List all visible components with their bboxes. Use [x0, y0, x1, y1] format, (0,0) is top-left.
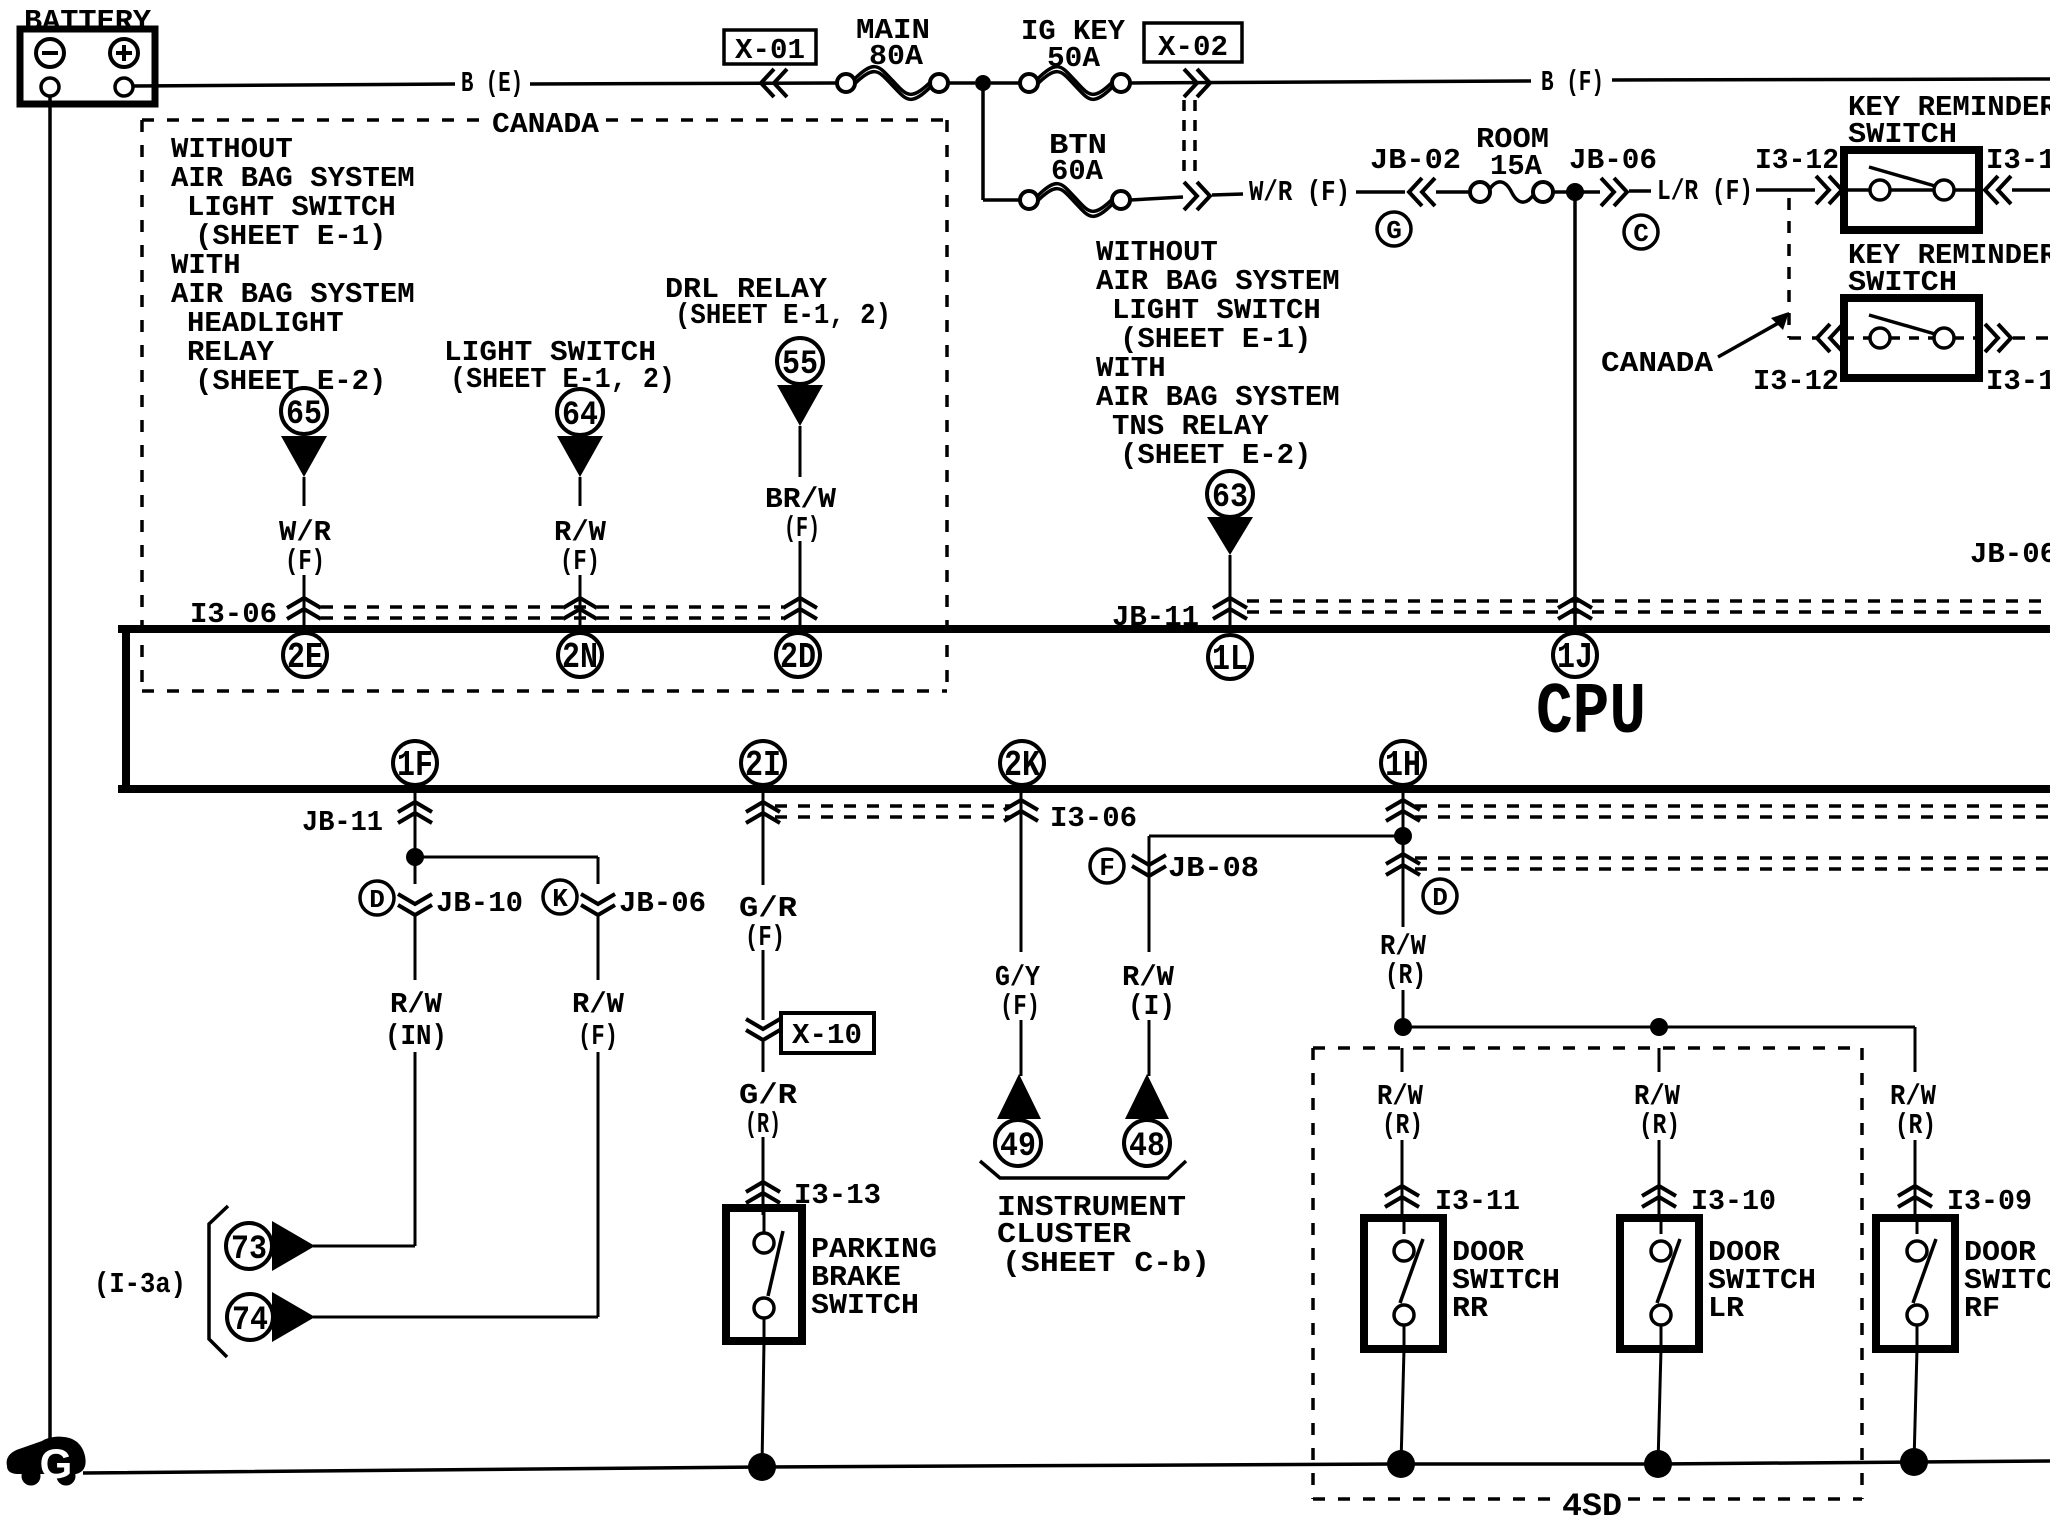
svg-text:JB-06: JB-06 [619, 887, 706, 920]
svg-text:I3-12: I3-12 [1986, 365, 2050, 398]
svg-text:15A: 15A [1490, 150, 1543, 183]
svg-text:(R): (R) [1382, 1109, 1423, 1142]
svg-text:I3-12: I3-12 [1755, 144, 1839, 177]
svg-text:JB-06: JB-06 [1569, 144, 1657, 177]
svg-text:JB-10: JB-10 [436, 887, 523, 920]
svg-text:X-01: X-01 [735, 34, 805, 67]
svg-text:(F): (F) [745, 921, 785, 954]
svg-text:73: 73 [231, 1231, 267, 1269]
svg-text:JB-02: JB-02 [1370, 144, 1461, 177]
svg-text:R/W: R/W [390, 988, 443, 1021]
svg-text:(I): (I) [1128, 990, 1175, 1023]
svg-text:D: D [1432, 883, 1448, 913]
svg-text:64: 64 [562, 397, 598, 435]
svg-text:(F): (F) [1000, 990, 1040, 1023]
svg-text:I3-10: I3-10 [1691, 1185, 1776, 1218]
svg-text:I3-06: I3-06 [1050, 802, 1137, 835]
svg-text:2K: 2K [1004, 745, 1040, 786]
svg-text:80A: 80A [869, 40, 924, 73]
svg-text:I3-12: I3-12 [1753, 365, 1839, 398]
svg-text:(F): (F) [784, 512, 820, 545]
svg-text:(SHEET E-1, 2): (SHEET E-1, 2) [675, 299, 891, 332]
svg-text:60A: 60A [1051, 155, 1104, 188]
svg-text:RF: RF [1964, 1292, 2000, 1325]
svg-text:B (F): B (F) [1541, 66, 1604, 99]
svg-text:CANADA: CANADA [492, 108, 600, 141]
svg-text:49: 49 [1000, 1128, 1036, 1166]
svg-text:55: 55 [782, 346, 818, 384]
svg-text:L/R (F): L/R (F) [1657, 175, 1753, 208]
svg-text:(F): (F) [560, 545, 600, 578]
svg-text:JB-06: JB-06 [1970, 538, 2050, 571]
svg-text:1F: 1F [397, 745, 433, 786]
svg-text:48: 48 [1129, 1128, 1165, 1166]
svg-text:50A: 50A [1047, 42, 1101, 75]
svg-text:(SHEET E-2): (SHEET E-2) [1120, 439, 1311, 472]
svg-text:BATTERY: BATTERY [24, 5, 152, 38]
svg-text:(R): (R) [745, 1108, 781, 1141]
svg-text:4SD: 4SD [1562, 1488, 1622, 1525]
svg-text:2D: 2D [780, 637, 816, 678]
svg-text:2N: 2N [562, 637, 598, 678]
svg-text:(SHEET E-1, 2): (SHEET E-1, 2) [450, 363, 675, 396]
svg-text:CANADA: CANADA [1601, 347, 1714, 380]
svg-text:(SHEET C-b): (SHEET C-b) [1002, 1247, 1210, 1280]
svg-text:G: G [40, 1440, 73, 1487]
svg-text:I3-09: I3-09 [1947, 1185, 2032, 1218]
svg-text:1H: 1H [1385, 745, 1421, 786]
svg-text:JB-11: JB-11 [302, 806, 383, 839]
svg-text:SWITCH: SWITCH [811, 1289, 919, 1322]
svg-text:D: D [369, 885, 385, 915]
svg-text:(F): (F) [285, 545, 325, 578]
svg-text:65: 65 [286, 396, 322, 434]
svg-text:(I-3a): (I-3a) [94, 1268, 186, 1301]
svg-text:CPU: CPU [1536, 672, 1646, 754]
svg-text:X-10: X-10 [792, 1019, 862, 1052]
svg-text:LR: LR [1708, 1292, 1745, 1325]
svg-text:1L: 1L [1212, 639, 1248, 680]
svg-text:JB-08: JB-08 [1168, 852, 1259, 885]
svg-text:K: K [552, 884, 568, 914]
svg-text:2E: 2E [287, 637, 323, 678]
svg-text:G: G [1386, 216, 1402, 246]
svg-text:(IN): (IN) [385, 1020, 447, 1053]
svg-text:F: F [1099, 853, 1115, 883]
svg-text:RR: RR [1452, 1292, 1489, 1325]
svg-text:R/W: R/W [572, 988, 625, 1021]
svg-text:74: 74 [232, 1302, 268, 1340]
svg-text:W/R (F): W/R (F) [1249, 176, 1350, 209]
svg-text:(F): (F) [578, 1020, 618, 1053]
svg-text:C: C [1633, 219, 1649, 249]
svg-text:I3-13: I3-13 [794, 1179, 881, 1212]
svg-text:(R): (R) [1639, 1109, 1680, 1142]
svg-text:I3-12: I3-12 [1986, 144, 2050, 177]
svg-text:B (E): B (E) [461, 67, 523, 100]
svg-text:2I: 2I [745, 745, 781, 786]
svg-text:X-02: X-02 [1158, 31, 1228, 64]
svg-text:(R): (R) [1895, 1109, 1936, 1142]
svg-text:(R): (R) [1385, 959, 1426, 992]
svg-text:I3-11: I3-11 [1435, 1185, 1520, 1218]
svg-text:63: 63 [1212, 479, 1248, 517]
